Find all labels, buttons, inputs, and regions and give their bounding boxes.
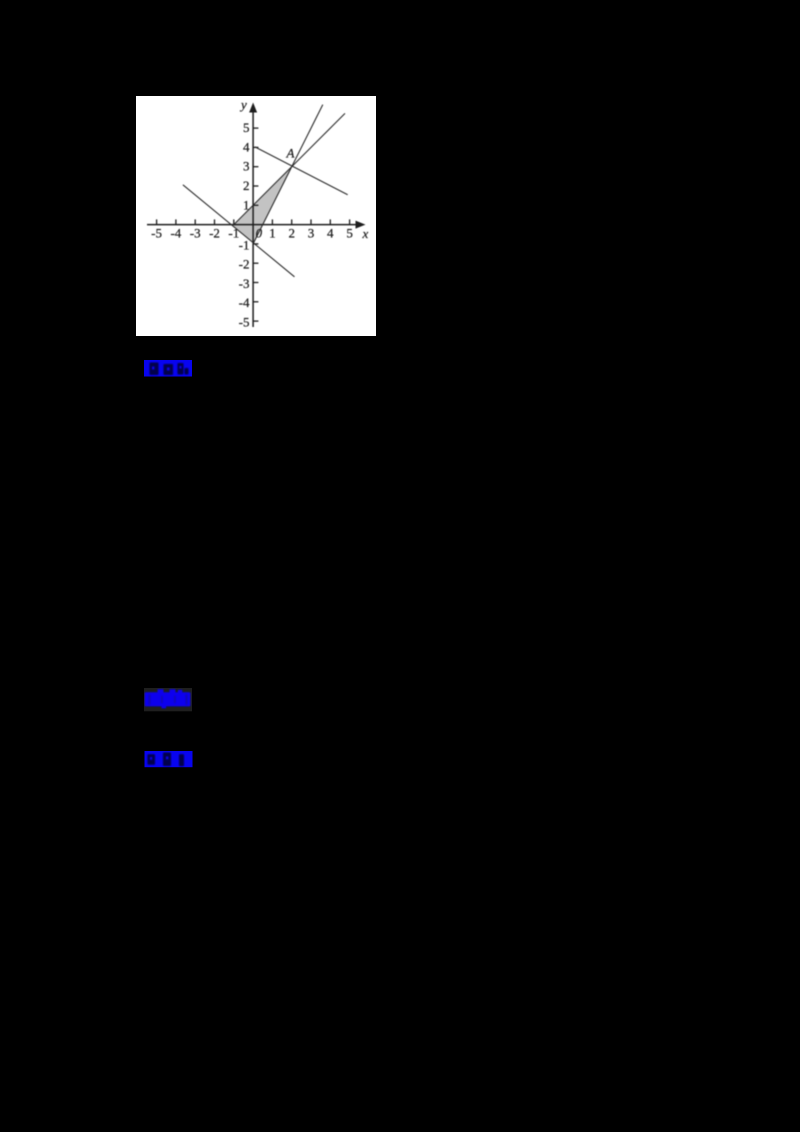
svg-text:-5: -5 [151,226,162,241]
svg-text:-4: -4 [239,295,250,310]
svg-text:-3: -3 [190,226,201,241]
line y=-x-1 lower-left to lower-right [183,185,295,277]
x-axis arrowhead [356,221,366,229]
second glyph ink [164,364,174,375]
svg-text:A: A [286,146,295,161]
blue speckle holes [150,757,152,760]
svg-text:0: 0 [256,226,263,241]
blue glyph band [145,692,191,706]
svg-text:4: 4 [327,226,334,241]
svg-text:2: 2 [288,226,295,241]
svg-text:4: 4 [243,139,250,154]
svg-text:-2: -2 [209,226,220,241]
x-axis [147,224,363,226]
figure: coordinate plane with shaded triangle [136,96,376,336]
line x+2y=8 through (0,4) and A [255,147,348,195]
y-axis [252,106,254,327]
y ticks [253,128,258,321]
svg-text:-1: -1 [239,237,250,252]
x tick labels [151,226,353,241]
answer header block (blue highlight, dark CJK glyphs) [144,360,192,377]
svg-text:3: 3 [243,159,250,174]
svg-text:5: 5 [243,120,250,135]
y tick labels [239,120,250,329]
svg-text:-3: -3 [239,276,250,291]
svg-text:5: 5 [346,226,353,241]
top stroke protrusions [158,689,164,694]
svg-text:2: 2 [243,178,250,193]
analysis header block (dark box, blue CJK glyphs) [144,688,192,712]
line y=x+1 through (-1,0) and A [234,113,345,224]
svg-text:-1: -1 [228,226,239,241]
right bracket ink [185,368,189,375]
detail header block (blue highlight, dark CJK glyphs) [144,751,193,768]
right glyph ink [179,754,184,766]
y-axis arrowhead [249,103,257,113]
white figure background [136,96,376,336]
x ticks [157,219,350,224]
shaded feasible-region triangle [233,167,292,244]
left bracket and first glyph ink [147,754,155,765]
line y=2x-1 through (0,-1) and A [253,105,322,244]
third glyph ink [178,363,184,375]
svg-text:1: 1 [269,226,276,241]
svg-text:3: 3 [308,226,315,241]
svg-text:1: 1 [243,197,250,212]
inter-glyph dark gaps [149,695,187,705]
descender [162,706,167,709]
blue speckle holes [152,367,154,370]
svg-text:x: x [362,226,369,241]
svg-text:y: y [239,97,247,112]
svg-text:-5: -5 [239,314,250,329]
left bracket and first glyph ink [150,363,159,376]
middle glyph ink [163,753,171,767]
svg-text:-4: -4 [170,226,181,241]
axis number labels [151,97,368,330]
svg-text:-2: -2 [239,257,250,272]
